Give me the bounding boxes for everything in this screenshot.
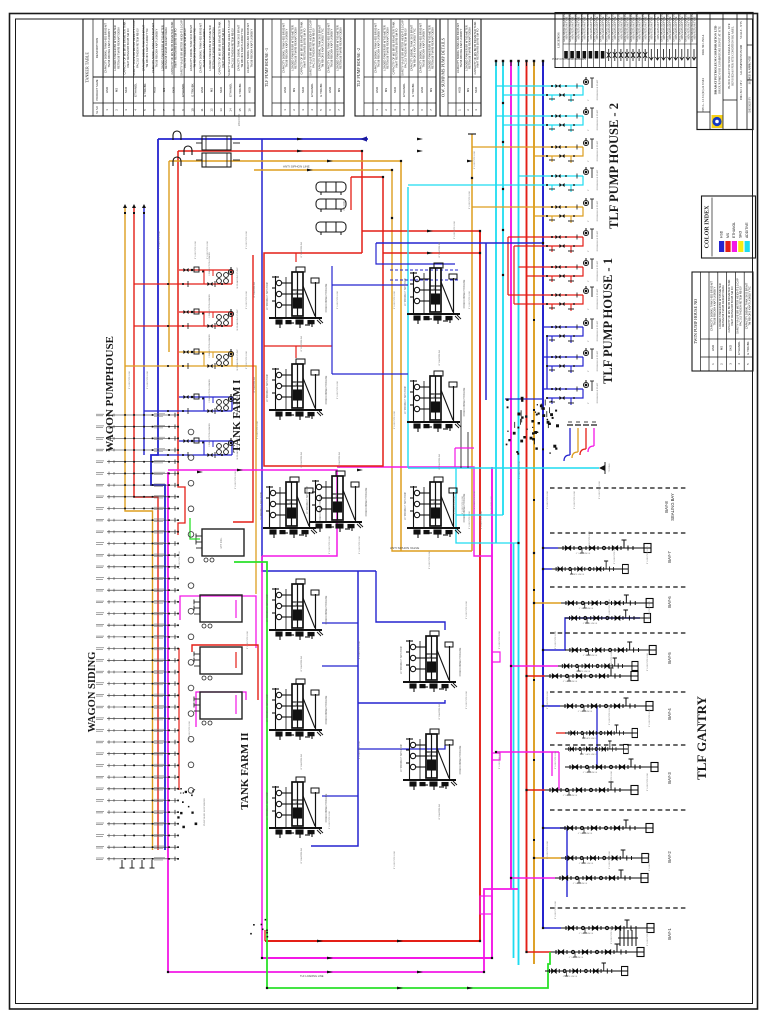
svg-text:KNAT RETEM RB 58 RB SM FO: KNAT RETEM RB 58 RB SM FO: [126, 28, 130, 67]
pump row P2: [496, 115, 583, 117]
wire orange pump header elbow: [572, 452, 578, 458]
company logo: [712, 115, 723, 128]
svg-text:KNAT RETEM RB 58 RB SM FO: KNAT RETEM RB 58 RB SM FO: [730, 286, 734, 325]
bay separator y533: [550, 532, 688, 534]
svg-text:TANK: TANK: [433, 393, 436, 399]
wire magenta pump header elbow: [588, 446, 594, 452]
svg-text:8" HSD PIPE LINE: 8" HSD PIPE LINE: [159, 230, 161, 249]
svg-text:ETHANOL: ETHANOL: [181, 83, 185, 97]
svg-text:10" DIA PIPELINE: 10" DIA PIPELINE: [338, 451, 341, 468]
svg-text:3": 3": [588, 280, 590, 282]
svg-text:4" GATE VALVE: 4" GATE VALVE: [563, 794, 578, 797]
svg-text:TM RB OKS KNAT LK0002 YTIC: TM RB OKS KNAT LK0002 YTIC: [413, 28, 417, 67]
wagon row 4: [96, 448, 178, 452]
svg-text:TM 58 RB DSH KNAT LK0005 Y: TM 58 RB DSH KNAT LK0005 Y: [285, 28, 289, 67]
svg-text:TLF PUMP HOUSE - 2: TLF PUMP HOUSE - 2: [607, 103, 621, 229]
svg-text:NON RETURN TYPE: NON RETURN TYPE: [693, 16, 696, 39]
svg-text:KNAT RETEM RB 58 RB SM FO: KNAT RETEM RB 58 RB SM FO: [173, 28, 177, 67]
wire magenta inner vertical: [261, 556, 263, 958]
svg-text:E TRK/BK: E TRK/BK: [143, 83, 147, 96]
svg-text:TM 58 RB DSH KNAT LK0005 Y: TM 58 RB DSH KNAT LK0005 Y: [459, 28, 463, 67]
svg-text:BAY-3: BAY-3: [667, 772, 672, 784]
svg-text:8" HSD PIPE LINE: 8" HSD PIPE LINE: [359, 535, 361, 554]
svg-text:FOAM CONNECTION LINE: FOAM CONNECTION LINE: [463, 279, 466, 308]
svg-text:4" GATE VALVE: 4" GATE VALVE: [570, 573, 585, 576]
wire red pumphouse riser: [233, 255, 253, 522]
ow pump table: [440, 19, 481, 116]
bay separator y745: [550, 744, 688, 746]
svg-text:6 DIA SUCTION HEADER: 6 DIA SUCTION HEADER: [208, 379, 211, 403]
wire pump row W4 loop: [179, 397, 232, 411]
riser stubs near bus: [460, 410, 462, 468]
wire orange bay2 feed: [534, 857, 561, 859]
svg-text:8" HSD PIPE LINE: 8" HSD PIPE LINE: [359, 640, 361, 659]
svg-text:10: 10: [191, 108, 195, 112]
svg-text:8" HSD PIPE LINE: 8" HSD PIPE LINE: [647, 772, 649, 791]
wire red tank stubs: [295, 253, 297, 262]
svg-text:E TRK/BK: E TRK/BK: [746, 341, 750, 354]
svg-text:10" DIA PIPELINE: 10" DIA PIPELINE: [253, 281, 256, 298]
wire magenta y467 right segment: [337, 467, 492, 556]
wire red tank2 inner pipe: [235, 652, 237, 668]
svg-text:4" GATE VALVE: 4" GATE VALVE: [579, 607, 594, 610]
wire pump row W2 loop: [179, 312, 232, 326]
svg-text:PAC 5.5 THGIEH RETEM RB EV: PAC 5.5 THGIEH RETEM RB EV: [135, 28, 139, 68]
svg-text:TANK: TANK: [429, 653, 432, 659]
pump cluster pump row W4: [191, 396, 193, 398]
svg-text:10" DIA PIPELINE: 10" DIA PIPELINE: [300, 335, 303, 352]
svg-text:W.CHARGING PUMP: W.CHARGING PUMP: [236, 309, 239, 331]
svg-text:4" GATE VALVE: 4" GATE VALVE: [576, 670, 591, 673]
svg-text:8" HSD PIPE LINE: 8" HSD PIPE LINE: [614, 545, 616, 564]
svg-text:8" HSD PIPE LINE: 8" HSD PIPE LINE: [189, 720, 191, 739]
svg-text:8" HSD PIPE LINE: 8" HSD PIPE LINE: [429, 550, 431, 569]
svg-text:WAGON PUMPHOUSE: WAGON PUMPHOUSE: [104, 336, 116, 452]
svg-text:FOAM CONNECTION LINE: FOAM CONNECTION LINE: [325, 695, 328, 724]
tlf ph2 table: [355, 19, 436, 116]
wire blue bus x543: [542, 62, 544, 928]
svg-text:BAY-6: BAY-6: [667, 596, 672, 608]
wire blue dashes: [390, 269, 460, 271]
wire red TF1 mid: [264, 345, 332, 347]
wire red ph2 loop: [507, 237, 509, 295]
bay separator y908: [550, 907, 688, 909]
wire orange anti siphon line: [254, 170, 472, 551]
svg-text:8" HSD PIPE LINE: 8" HSD PIPE LINE: [257, 420, 259, 439]
wire magenta tank3 inner pipe: [235, 695, 237, 714]
svg-text:10" PRODUCT HATCH DIP: 10" PRODUCT HATCH DIP: [266, 791, 269, 820]
svg-text:8" HSD PIPE LINE: 8" HSD PIPE LINE: [147, 370, 149, 389]
svg-text:ETHANOL: ETHANOL: [310, 83, 314, 97]
title block: [697, 13, 753, 130]
wire red bay feeds: [527, 675, 546, 677]
svg-text:3": 3": [588, 340, 590, 342]
svg-text:10" DIA PIPELINE: 10" DIA PIPELINE: [438, 803, 441, 820]
svg-text:14: 14: [229, 108, 233, 112]
svg-text:BAY-5: BAY-5: [667, 652, 672, 664]
wire cyan y468 run: [408, 467, 599, 469]
svg-text:10" DIA PIPELINE: 10" DIA PIPELINE: [300, 847, 303, 864]
wagon row 7: [96, 483, 178, 487]
svg-text:DPC L- 13 33 (RI) 22 8 M 6: DPC L- 13 33 (RI) 22 8 M 6: [701, 77, 705, 112]
wagon row 19: [96, 623, 178, 627]
svg-text:MS: MS: [292, 88, 296, 92]
svg-text:BAY-1: BAY-1: [667, 928, 672, 940]
tank V8: [407, 477, 461, 538]
pump row P3: [472, 146, 583, 148]
wire magenta y470 to tank farm: [168, 470, 337, 556]
svg-text:FOAM CONNECTION LINE: FOAM CONNECTION LINE: [459, 647, 462, 676]
svg-text:HSD: HSD: [719, 230, 723, 238]
svg-text:8" HSD PIPE LINE: 8" HSD PIPE LINE: [195, 240, 197, 259]
pump row P9: [543, 326, 583, 328]
svg-text:RETEM 58 TM RB REKNAT DEDA: RETEM 58 TM RB REKNAT DEDA: [386, 27, 390, 69]
svg-text:10" DIA PIPELINE: 10" DIA PIPELINE: [438, 241, 441, 258]
svg-text:10" PRODUCT HATCH DIP: 10" PRODUCT HATCH DIP: [266, 693, 269, 722]
svg-text:8" HSD PIPE LINE: 8" HSD PIPE LINE: [547, 690, 549, 709]
svg-text:O.W. SUMP/MS PUMP DETAILS: O.W. SUMP/MS PUMP DETAILS: [441, 37, 446, 96]
svg-text:MS: MS: [429, 88, 433, 92]
wire magenta tank farm II box 3: [196, 692, 246, 727]
wire cyan box: [456, 515, 519, 543]
wire red TF1 y253 long: [383, 252, 480, 254]
wire blue TF1 verticals: [331, 266, 333, 374]
svg-text:BAY-8: BAY-8: [664, 501, 669, 513]
svg-text:ROYAL BLUE PUMP: ROYAL BLUE PUMP: [596, 200, 599, 221]
svg-text:MS: MS: [210, 88, 214, 92]
svg-text:ROYAL BLUE PUMP: ROYAL BLUE PUMP: [596, 79, 599, 100]
svg-text:10" PRODUCT HATCH DIP: 10" PRODUCT HATCH DIP: [404, 385, 407, 414]
wagon row 23: [96, 670, 178, 674]
svg-text:13: 13: [219, 108, 223, 112]
wagon row 8: [96, 495, 178, 499]
wagon row 5: [96, 460, 178, 464]
tank V5: [407, 371, 461, 432]
wagon row 27: [96, 717, 178, 721]
svg-text:8" HSD PIPE LINE: 8" HSD PIPE LINE: [394, 290, 396, 309]
pump row P11: [543, 388, 583, 390]
svg-text:10" DIA PIPELINE: 10" DIA PIPELINE: [300, 451, 303, 468]
svg-text:8" HSD PIPE LINE: 8" HSD PIPE LINE: [499, 750, 501, 769]
svg-text:WAGON SIDING: WAGON SIDING: [87, 652, 98, 733]
pump row P6: [508, 236, 583, 238]
svg-text:4" GATE VALVE: 4" GATE VALVE: [563, 680, 578, 683]
manifold cluster ph1: [517, 427, 519, 429]
wire pump row W3 loop: [179, 352, 232, 366]
svg-text:ETHANOL: ETHANOL: [402, 83, 406, 97]
svg-text:8" HSD PIPE LINE: 8" HSD PIPE LINE: [647, 545, 649, 564]
tank V3: [269, 359, 323, 420]
wire red wagon branch: [178, 460, 185, 535]
svg-text:TM RB OKS KNAT LK0002 YTIC: TM RB OKS KNAT LK0002 YTIC: [192, 28, 196, 67]
svg-text:8" HSD PIPE LINE: 8" HSD PIPE LINE: [481, 510, 483, 529]
header tees above elbows: [567, 424, 573, 426]
svg-text:ADDITIVE: ADDITIVE: [745, 222, 749, 238]
svg-text:TLF PUMP HOUSE -1: TLF PUMP HOUSE -1: [264, 48, 269, 87]
wire cyan bus x496: [495, 61, 497, 543]
svg-text:10" DIA PIPELINE: 10" DIA PIPELINE: [438, 703, 441, 720]
svg-text:8" HSD PIPE LINE: 8" HSD PIPE LINE: [555, 900, 557, 919]
svg-text:8" HSD PIPE LINE: 8" HSD PIPE LINE: [649, 852, 651, 871]
wagon row 37: [96, 833, 178, 837]
wire magenta bay5 feed: [511, 665, 558, 667]
wire green main run: [234, 562, 550, 988]
svg-text:TM RB OKS KNAT LK0002 YTIC: TM RB OKS KNAT LK0002 YTIC: [748, 286, 752, 325]
svg-text:4" GATE VALVE: 4" GATE VALVE: [583, 622, 598, 625]
svg-text:TANK: TANK: [295, 701, 298, 707]
wagon row 22: [96, 658, 178, 662]
svg-text:ROYAL BLUE PUMP: ROYAL BLUE PUMP: [596, 382, 599, 403]
wire blue drop wagon pumphouse: [151, 139, 165, 850]
svg-text:SKO: SKO: [124, 86, 128, 93]
pump row P5: [472, 206, 583, 208]
bay loading string S5: [565, 642, 656, 655]
wire pump row W5 loop: [179, 441, 232, 455]
wagon row 26: [96, 705, 178, 709]
svg-text:TANK: TANK: [295, 289, 298, 295]
svg-text:HSD: HSD: [458, 87, 462, 93]
wagon row 35: [96, 810, 178, 814]
pump cluster pump row W2: [191, 311, 193, 313]
svg-text:TM 58 RB DSH KNAT LK0005 Y: TM 58 RB DSH KNAT LK0005 Y: [107, 28, 111, 67]
svg-text:TLF LOADING LINE: TLF LOADING LINE: [300, 974, 324, 978]
svg-text:FOAM CONNECTION LINE: FOAM CONNECTION LINE: [325, 375, 328, 404]
svg-text:8" HSD PIPE LINE: 8" HSD PIPE LINE: [649, 708, 651, 727]
svg-text:MANIFOLD: MANIFOLD: [238, 114, 241, 127]
wire red tank farm I loop top: [264, 177, 383, 466]
svg-text:KNAT RETEM RB 58 RB SM FO: KNAT RETEM RB 58 RB SM FO: [395, 28, 399, 67]
svg-text:11: 11: [200, 108, 204, 111]
bay loading string S18: [545, 963, 628, 976]
svg-text:8" HSD PIPE LINE: 8" HSD PIPE LINE: [246, 290, 248, 309]
wire red tank farm II tank2 loop: [192, 645, 258, 700]
svg-text:ALL DIMENSIONS IN MM: ALL DIMENSIONS IN MM: [740, 44, 743, 75]
svg-text:8" HSD PIPE LINE: 8" HSD PIPE LINE: [474, 490, 476, 509]
color index swatches: [719, 241, 724, 252]
svg-text:2W 200KL: 2W 200KL: [343, 199, 346, 211]
wire green ethanol tank stub: [190, 518, 200, 539]
svg-text:W.CHARGING PUMP: W.CHARGING PUMP: [236, 267, 239, 289]
bay loading string S17: [551, 944, 644, 957]
wire blue manifold header: [158, 138, 368, 140]
wagon row 2: [96, 425, 178, 429]
svg-text:8" HSD PIPE LINE: 8" HSD PIPE LINE: [499, 630, 501, 649]
tank V2: [269, 267, 323, 328]
svg-text:4" GATE VALVE: 4" GATE VALVE: [583, 654, 598, 657]
svg-text:SKO: SKO: [739, 230, 743, 238]
svg-text:4" GATE VALVE: 4" GATE VALVE: [583, 771, 598, 774]
svg-text:RETEM 58 TM RB REKNAT DEDA: RETEM 58 TM RB REKNAT DEDA: [339, 27, 343, 69]
wire red TF1 upper long: [362, 230, 480, 232]
svg-text:SKO: SKO: [474, 86, 478, 93]
svg-text:3": 3": [588, 308, 590, 310]
svg-text:SCALE - NTS: SCALE - NTS: [739, 21, 743, 39]
svg-text:HSD: HSD: [153, 87, 157, 93]
svg-text:8" HSD PIPE LINE: 8" HSD PIPE LINE: [609, 706, 611, 725]
svg-text:HSD: HSD: [105, 87, 109, 93]
svg-text:8" HSD PIPE LINE: 8" HSD PIPE LINE: [555, 630, 557, 649]
svg-text:HSD: HSD: [328, 87, 332, 93]
wagon row 30: [96, 752, 178, 756]
svg-text:10" PRODUCT HATCH DIP: 10" PRODUCT HATCH DIP: [260, 491, 263, 520]
svg-text:6 DIA SUCTION HEADER: 6 DIA SUCTION HEADER: [208, 334, 211, 358]
svg-text:10" DIA PIPELINE: 10" DIA PIPELINE: [438, 453, 441, 470]
svg-text:E TRK/BK: E TRK/BK: [411, 83, 415, 96]
svg-text:8" HSD PIPE LINE: 8" HSD PIPE LINE: [246, 230, 248, 249]
wire pump row W1 loop: [179, 270, 232, 284]
svg-text:ETH 20KL: ETH 20KL: [220, 537, 223, 549]
svg-text:SL NO: SL NO: [95, 106, 99, 114]
svg-text:ETHANOL: ETHANOL: [229, 83, 233, 97]
svg-text:TANK: TANK: [429, 751, 432, 757]
svg-text:TANK: TANK: [289, 499, 292, 505]
wire orange bus x534: [533, 62, 535, 964]
bay loading string S14: [561, 850, 648, 863]
bay loading string S16: [561, 920, 654, 933]
svg-text:8" HSD PIPE LINE: 8" HSD PIPE LINE: [555, 750, 557, 769]
svg-text:BAY-2: BAY-2: [667, 851, 672, 863]
svg-text:TANK: TANK: [335, 493, 338, 499]
svg-text:8" HSD PIPE LINE: 8" HSD PIPE LINE: [519, 460, 521, 479]
tank V13: [403, 729, 457, 790]
svg-text:4" GATE VALVE: 4" GATE VALVE: [579, 932, 594, 935]
svg-text:4" GATE VALVE: 4" GATE VALVE: [569, 956, 584, 959]
wire blue V3-V5 link: [332, 373, 408, 375]
svg-text:8" HSD PIPE LINE: 8" HSD PIPE LINE: [547, 840, 549, 859]
svg-text:PAC 5.5 THGIEH RETEM RB EV: PAC 5.5 THGIEH RETEM RB EV: [230, 28, 234, 68]
tlf ph1 table: [263, 19, 344, 116]
svg-text:FOAM CONNECTION LINE: FOAM CONNECTION LINE: [325, 283, 328, 312]
wire magenta bus x511: [510, 62, 512, 889]
svg-text:8" HSD PIPE LINE: 8" HSD PIPE LINE: [337, 290, 339, 309]
bus top junction dots: [495, 61, 497, 66]
svg-text:8" HSD PIPE LINE: 8" HSD PIPE LINE: [611, 650, 613, 669]
bay loading string S3: [561, 595, 653, 608]
wagon row 34: [96, 798, 178, 802]
svg-text:RETEM 58 TM RB REKNAT DEDA: RETEM 58 TM RB REKNAT DEDA: [211, 27, 215, 69]
pump cluster pump row W3: [191, 351, 193, 353]
bay separator y587: [550, 586, 688, 588]
tank farm II rect tank 3: [194, 692, 242, 725]
flow arrows on headers: [297, 138, 303, 141]
wagon row 28: [96, 728, 178, 732]
bay loading string S12: [545, 782, 638, 795]
wagon row 3: [96, 436, 178, 440]
svg-text:8" HSD PIPE LINE: 8" HSD PIPE LINE: [469, 290, 471, 309]
pump row P10: [543, 356, 583, 358]
svg-text:15: 15: [238, 108, 242, 112]
svg-text:4" GATE VALVE: 4" GATE VALVE: [583, 753, 598, 756]
svg-text:BAY-7: BAY-7: [667, 551, 672, 563]
wagon track end marks: [121, 860, 123, 868]
svg-text:8" HSD PIPE LINE: 8" HSD PIPE LINE: [647, 927, 649, 946]
wire orange drop wagon: [168, 161, 170, 352]
wire orange wagon siding feed: [125, 208, 153, 850]
wire red drop wagon pumphouse: [177, 151, 179, 460]
wire magenta bay2 feed: [511, 877, 555, 879]
svg-text:FOAM CONNECTION LINE: FOAM CONNECTION LINE: [463, 387, 466, 416]
svg-text:8" HSD PIPE LINE: 8" HSD PIPE LINE: [491, 495, 493, 514]
wire magenta wagon header y470: [168, 472, 518, 972]
svg-text:10" DIA PIPELINE: 10" DIA PIPELINE: [300, 655, 303, 672]
svg-text:MS: MS: [726, 232, 730, 238]
wire blue bay6-5 riser: [543, 618, 640, 650]
wagon row 16: [96, 588, 178, 592]
svg-text:8" HSD PIPE LINE: 8" HSD PIPE LINE: [329, 810, 331, 829]
svg-text:PAC 5.5 THGIEH RETEM RB EV: PAC 5.5 THGIEH RETEM RB EV: [312, 28, 316, 68]
svg-text:FOAM CONNECTION LINE: FOAM CONNECTION LINE: [325, 793, 328, 822]
wire magenta tank stubs right: [492, 652, 500, 662]
svg-text:ANTI SIPHON LINE: ANTI SIPHON LINE: [283, 165, 310, 169]
svg-text:MS: MS: [115, 88, 119, 92]
bay loading string S11: [565, 759, 658, 772]
svg-text:LEGENDS: LEGENDS: [557, 32, 561, 48]
pump row P1: [496, 85, 583, 87]
wire blue bay4-3 riser: [596, 706, 598, 767]
tank farm II rect tank 2: [194, 647, 242, 680]
svg-text:ROYAL BLUE PUMP: ROYAL BLUE PUMP: [596, 169, 599, 190]
tanker table: [83, 19, 255, 116]
svg-text:COLOR INDEX: COLOR INDEX: [705, 205, 711, 249]
svg-text:KNAT RETEM RB 58 RB SM FO: KNAT RETEM RB 58 RB SM FO: [303, 28, 307, 67]
svg-text:10" DIA PIPELINE: 10" DIA PIPELINE: [438, 349, 441, 366]
svg-text:TANKER TABLE: TANKER TABLE: [85, 52, 90, 83]
wire blue bay1 feed: [543, 927, 561, 929]
svg-text:ROYAL BLUE PUMP: ROYAL BLUE PUMP: [596, 288, 599, 309]
svg-text:8" HSD PIPE LINE: 8" HSD PIPE LINE: [649, 600, 651, 619]
svg-text:PRODUCT NAME: PRODUCT NAME: [95, 79, 99, 100]
bay loading string S13: [560, 820, 653, 833]
wire blue bus x486: [485, 243, 487, 400]
svg-text:PUMP SHED SLOP WATER: PUMP SHED SLOP WATER: [203, 798, 206, 826]
svg-text:DESCRIPTION: DESCRIPTION: [95, 38, 99, 59]
svg-text:PAC 5.5 THGIEH RETEM RB EV: PAC 5.5 THGIEH RETEM RB EV: [739, 286, 743, 326]
wagon row 33: [96, 787, 178, 791]
svg-text:DRG NO 2 OF 2: DRG NO 2 OF 2: [740, 80, 743, 100]
svg-text:ANTI SIPHON VALVE: ANTI SIPHON VALVE: [390, 546, 419, 550]
wire red pump header elbow: [580, 449, 586, 455]
color index box: [702, 196, 756, 258]
svg-text:E TRK/BK: E TRK/BK: [319, 83, 323, 96]
svg-text:TM 58 RB DSH KNAT LK0005 Y: TM 58 RB DSH KNAT LK0005 Y: [202, 28, 206, 67]
wagon row 10: [96, 518, 178, 522]
wire red manifold header: [178, 151, 362, 253]
wire red V1 connect: [350, 177, 352, 210]
svg-text:HSD: HSD: [200, 87, 204, 93]
wire red bus x480: [265, 231, 480, 941]
bay loading string S9: [565, 725, 638, 738]
bay loading string S8: [560, 698, 653, 711]
tank farm II rect tank 1: [194, 595, 242, 628]
svg-text:8" HSD PIPE LINE: 8" HSD PIPE LINE: [394, 410, 396, 429]
svg-text:SKO: SKO: [172, 86, 176, 93]
svg-text:8" HSD PIPE LINE: 8" HSD PIPE LINE: [394, 850, 396, 869]
wagon row 21: [96, 646, 178, 650]
tank V6: [263, 477, 317, 538]
svg-text:HSD: HSD: [248, 87, 252, 93]
wire blue bay2 feed riser: [543, 828, 567, 897]
svg-text:TANK: TANK: [295, 799, 298, 805]
svg-text:SEALING BAY: SEALING BAY: [670, 493, 675, 521]
svg-text:TM 58 RB DSH KNAT LK0005 Y: TM 58 RB DSH KNAT LK0005 Y: [154, 28, 158, 67]
svg-text:8" HSD PIPE LINE: 8" HSD PIPE LINE: [129, 370, 131, 389]
wire blue pump header elbow: [564, 455, 570, 461]
svg-text:4" GATE VALVE: 4" GATE VALVE: [576, 552, 591, 555]
svg-text:8" HSD PIPE LINE: 8" HSD PIPE LINE: [337, 380, 339, 399]
svg-text:ROYAL BLUE PUMP: ROYAL BLUE PUMP: [596, 109, 599, 130]
svg-text:8" HSD PIPE LINE: 8" HSD PIPE LINE: [589, 530, 591, 549]
svg-text:3": 3": [588, 129, 590, 131]
